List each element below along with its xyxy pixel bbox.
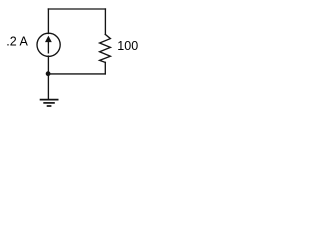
current source arrow head: [45, 36, 52, 43]
current source I1 circle: [37, 33, 60, 56]
resistor R 100 zigzag: [100, 34, 111, 62]
wire right vertical top: [104, 9, 106, 34]
wire bottom horizontal: [48, 73, 105, 75]
wire source bottom to ground: [47, 56, 49, 99]
wire left vertical to source: [47, 9, 49, 34]
wire right vertical bottom: [104, 62, 106, 74]
current source arrow tail: [47, 41, 49, 53]
junction node dot: [46, 71, 51, 76]
svg-text:.2 A: .2 A: [6, 35, 28, 49]
wire top horizontal: [48, 8, 105, 10]
ground symbol: [40, 100, 59, 106]
svg-text:100: 100: [117, 39, 138, 53]
